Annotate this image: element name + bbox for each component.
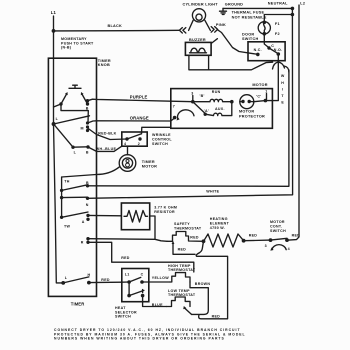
svg-text:CONT.: CONT. xyxy=(270,224,282,228)
svg-text:R: R xyxy=(81,241,84,245)
svg-text:RED-BLK: RED-BLK xyxy=(98,132,116,136)
svg-text:BLACK: BLACK xyxy=(108,24,123,28)
svg-text:4750 W.: 4750 W. xyxy=(210,226,225,230)
svg-text:LOW TEMP: LOW TEMP xyxy=(168,289,190,293)
svg-text:RED: RED xyxy=(178,248,187,252)
svg-text:ORANGE: ORANGE xyxy=(130,115,149,120)
svg-text:2: 2 xyxy=(138,142,140,146)
svg-text:N: N xyxy=(86,203,89,207)
svg-text:TW: TW xyxy=(64,225,70,229)
svg-text:L1: L1 xyxy=(125,272,130,276)
svg-text:3: 3 xyxy=(265,244,267,248)
svg-text:TIMER: TIMER xyxy=(71,302,85,307)
svg-text:RED: RED xyxy=(212,315,221,319)
svg-text:THERMOSTAT: THERMOSTAT xyxy=(174,227,202,231)
svg-text:7: 7 xyxy=(173,105,175,109)
svg-text:AUX.: AUX. xyxy=(215,107,225,111)
svg-text:SWITCH: SWITCH xyxy=(115,315,131,319)
svg-text:TH: TH xyxy=(64,180,69,184)
svg-text:MOTOR: MOTOR xyxy=(239,109,254,113)
svg-text:1: 1 xyxy=(265,89,267,93)
svg-text:PURPLE: PURPLE xyxy=(130,95,148,100)
svg-text:'B': 'B' xyxy=(200,94,205,98)
svg-text:N.C.: N.C. xyxy=(254,48,262,52)
svg-text:RED: RED xyxy=(190,236,199,240)
svg-text:C: C xyxy=(141,272,144,276)
svg-text:L2: L2 xyxy=(300,2,305,6)
svg-text:F2: F2 xyxy=(275,32,280,36)
svg-text:HIGH TEMP: HIGH TEMP xyxy=(168,264,191,268)
svg-text:ELEMENT: ELEMENT xyxy=(210,222,230,226)
svg-text:MOTOR: MOTOR xyxy=(270,220,285,224)
svg-text:L1: L1 xyxy=(51,10,57,15)
svg-text:THERMAL FUSE: THERMAL FUSE xyxy=(232,11,265,15)
svg-text:PROTECTOR: PROTECTOR xyxy=(239,114,265,118)
svg-text:E: E xyxy=(281,101,284,105)
svg-text:SWITCH: SWITCH xyxy=(152,142,168,146)
svg-text:'C': 'C' xyxy=(256,94,261,98)
svg-text:4: 4 xyxy=(124,142,126,146)
svg-text:CYLINDER LIGHT: CYLINDER LIGHT xyxy=(183,3,219,7)
svg-text:MOTOR: MOTOR xyxy=(252,83,267,87)
svg-text:H: H xyxy=(281,81,284,85)
svg-text:WRINKLE: WRINKLE xyxy=(152,133,171,137)
svg-text:NUMBERS WHEN WRITING ABOUT THI: NUMBERS WHEN WRITING ABOUT THIS DRYER OR… xyxy=(54,337,225,341)
svg-text:KNOB: KNOB xyxy=(98,63,110,67)
svg-text:F1: F1 xyxy=(275,22,280,26)
svg-text:DOOR: DOOR xyxy=(242,33,254,37)
svg-text:WHITE: WHITE xyxy=(206,190,219,194)
svg-text:MOTOR: MOTOR xyxy=(142,165,157,169)
svg-text:CONTROL: CONTROL xyxy=(152,138,172,142)
svg-text:YELLOW: YELLOW xyxy=(152,276,169,280)
svg-text:GROUND: GROUND xyxy=(225,2,243,6)
svg-text:3.77 K OHM: 3.77 K OHM xyxy=(154,205,177,209)
svg-text:NEUTRAL: NEUTRAL xyxy=(268,2,288,6)
svg-text:4: 4 xyxy=(288,247,290,251)
svg-text:THERMOSTAT: THERMOSTAT xyxy=(168,268,196,272)
svg-text:NOT RESETABLE: NOT RESETABLE xyxy=(232,15,267,19)
svg-text:M: M xyxy=(81,127,84,131)
svg-text:RED: RED xyxy=(292,234,301,238)
svg-text:WH.-BLUE: WH.-BLUE xyxy=(96,147,117,151)
svg-text:RUN: RUN xyxy=(212,90,221,94)
svg-text:BROWN: BROWN xyxy=(195,282,211,286)
svg-text:RED: RED xyxy=(249,234,258,238)
svg-text:SWITCH: SWITCH xyxy=(270,229,286,233)
svg-text:TIMER: TIMER xyxy=(142,160,155,164)
svg-text:TIMER: TIMER xyxy=(98,59,111,63)
svg-text:W: W xyxy=(281,74,285,78)
svg-text:B: B xyxy=(86,181,89,185)
svg-text:HEATING: HEATING xyxy=(210,217,228,221)
svg-text:RED: RED xyxy=(101,278,110,282)
svg-text:RED: RED xyxy=(121,256,130,260)
svg-text:(N-B): (N-B) xyxy=(61,46,72,50)
svg-text:RESISTOR: RESISTOR xyxy=(154,210,175,214)
svg-text:I: I xyxy=(282,88,283,92)
svg-text:H: H xyxy=(88,273,91,277)
svg-text:A: A xyxy=(82,220,85,224)
svg-text:PINK: PINK xyxy=(216,23,226,27)
svg-text:BLUE: BLUE xyxy=(152,303,163,307)
svg-text:B: B xyxy=(86,106,89,110)
svg-text:SWITCH: SWITCH xyxy=(242,37,258,41)
svg-text:SAFETY: SAFETY xyxy=(174,222,190,226)
svg-text:B: B xyxy=(86,150,89,154)
